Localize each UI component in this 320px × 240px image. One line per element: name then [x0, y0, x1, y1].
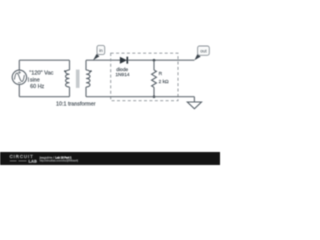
wire left vertical below source V1 — [18, 85, 20, 97]
junction node resistor bottom — [153, 95, 156, 98]
wire bottom of source loop — [19, 96, 69, 98]
svg-text:diode: diode — [116, 67, 128, 73]
voltage source V1 circle — [12, 70, 26, 84]
svg-text:10:1 transformer: 10:1 transformer — [56, 102, 96, 108]
watermark bar background — [0, 152, 220, 165]
diode D1 cathode bar — [126, 57, 128, 64]
voltage source V1 sine symbol — [14, 73, 24, 81]
svg-text:out: out — [200, 49, 207, 54]
svg-text:in: in — [99, 48, 103, 53]
diode D1 triangle — [120, 57, 127, 64]
svg-text:"120" Vac: "120" Vac — [29, 70, 53, 76]
svg-text:1N914: 1N914 — [115, 72, 129, 78]
wire ground stub — [193, 97, 195, 102]
svg-text:2 kΩ: 2 kΩ — [159, 79, 169, 85]
transformer T1 secondary polarity dot — [90, 70, 92, 72]
node out flag box — [198, 46, 210, 55]
watermark CircuitLab logo traces — [10, 160, 27, 162]
transformer T1 primary lead top — [69, 60, 71, 70]
svg-text:R: R — [159, 71, 163, 77]
node in flag box — [97, 45, 105, 54]
wire secondary bottom to ground — [86, 96, 194, 98]
node in flag pointer — [93, 54, 99, 60]
resistor R1 lead top — [153, 60, 155, 70]
label tick mark left of sine — [27, 77, 29, 82]
dashed box around diode and resistor — [111, 53, 178, 100]
svg-text:sine: sine — [30, 77, 40, 83]
wire top of source loop — [19, 59, 69, 61]
voltage source V1 minus sign — [18, 82, 21, 84]
transformer T1 secondary lead top — [85, 60, 87, 70]
resistor R1 lead bottom — [153, 87, 155, 96]
svg-text:60 Hz: 60 Hz — [30, 84, 44, 90]
transformer T1 primary lead bottom — [69, 87, 71, 97]
voltage source V1 plus sign — [18, 71, 21, 74]
svg-text:LAB: LAB — [29, 159, 38, 163]
wire diode to out node — [128, 59, 195, 61]
transformer T1 primary winding — [66, 70, 70, 87]
transformer T1 secondary lead bottom — [85, 87, 87, 97]
resistor R1 zigzag — [152, 70, 157, 87]
transformer T1 core — [76, 70, 80, 88]
wire secondary top to diode — [86, 59, 120, 61]
ground symbol — [187, 102, 201, 109]
junction node resistor top — [153, 59, 156, 62]
transformer T1 primary polarity dot — [64, 70, 66, 72]
svg-text:CIRCUIT: CIRCUIT — [10, 154, 34, 159]
node out flag pointer — [194, 54, 200, 60]
transformer T1 secondary winding — [86, 70, 90, 87]
svg-text:http://circuitlab.com/c/bz2jf5: http://circuitlab.com/c/bz2jf58bwx4j — [40, 159, 79, 163]
wire left vertical above source V1 — [18, 60, 20, 70]
